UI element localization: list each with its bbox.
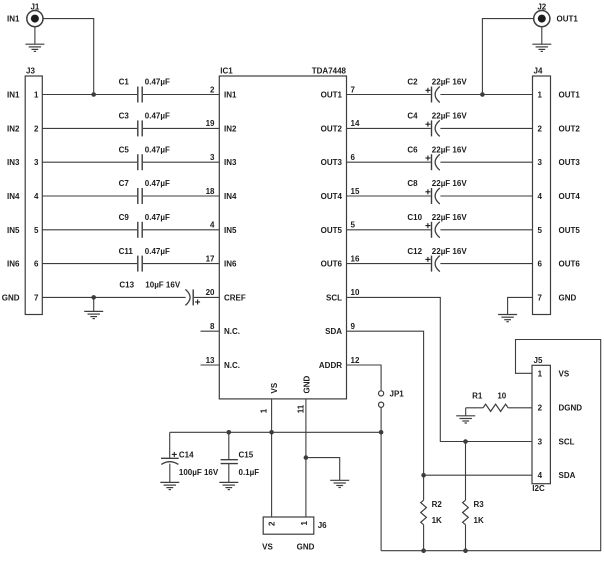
J3 pin 2 label xyxy=(7,124,39,133)
J3 pin 4 label xyxy=(7,192,39,201)
svg-text:C2: C2 xyxy=(407,78,418,87)
capacitor C3 0.47uF xyxy=(119,112,170,137)
svg-text:2: 2 xyxy=(267,521,276,526)
wire JP1 to VS rail xyxy=(380,407,382,432)
svg-text:11: 11 xyxy=(296,404,305,413)
svg-text:10: 10 xyxy=(351,288,360,297)
svg-text:IN4: IN4 xyxy=(7,192,20,201)
wire C4 to J4 pin 2 xyxy=(440,127,532,129)
svg-text:IN3: IN3 xyxy=(7,158,20,167)
capacitor C7 0.47uF xyxy=(119,179,170,204)
svg-text:0.47µF: 0.47µF xyxy=(145,213,170,222)
svg-text:15: 15 xyxy=(351,187,360,196)
svg-text:5: 5 xyxy=(34,226,39,235)
svg-text:GND: GND xyxy=(2,293,20,302)
junction node OUT1 xyxy=(480,92,485,97)
svg-text:R1: R1 xyxy=(472,391,483,400)
svg-text:1K: 1K xyxy=(474,516,484,525)
wire C2 to J4 pin 1 xyxy=(440,94,532,96)
J3 pin 3 label xyxy=(7,158,39,167)
svg-text:SCL: SCL xyxy=(326,293,342,302)
wire IC1 GND pin to J6 pin 1 xyxy=(305,399,307,517)
J4 pin 1 label xyxy=(537,91,580,100)
ground at R1 xyxy=(456,408,475,423)
J5 pin 2 label xyxy=(538,404,583,413)
resistor R2 1K xyxy=(421,500,443,525)
svg-text:17: 17 xyxy=(206,254,215,263)
svg-text:SDA: SDA xyxy=(559,471,576,480)
svg-text:C13: C13 xyxy=(119,281,134,290)
svg-text:16: 16 xyxy=(351,254,360,263)
J5 pin 4 label xyxy=(538,471,576,480)
svg-text:OUT4: OUT4 xyxy=(321,192,343,201)
svg-text:2: 2 xyxy=(538,404,543,413)
svg-text:3: 3 xyxy=(538,438,543,447)
svg-text:22µF 16V: 22µF 16V xyxy=(432,247,468,256)
svg-text:OUT6: OUT6 xyxy=(559,260,581,269)
svg-text:C10: C10 xyxy=(407,213,422,222)
svg-text:OUT6: OUT6 xyxy=(321,260,343,269)
svg-text:C9: C9 xyxy=(119,213,130,222)
svg-text:IN4: IN4 xyxy=(224,192,237,201)
svg-text:R3: R3 xyxy=(474,500,485,509)
svg-text:OUT4: OUT4 xyxy=(559,192,581,201)
J4 pin 5 label xyxy=(537,226,580,235)
svg-text:4: 4 xyxy=(210,221,215,230)
IC1 pin 8 N.C. xyxy=(201,322,241,336)
wire SCL to R3 xyxy=(465,442,467,501)
svg-text:OUT2: OUT2 xyxy=(321,124,343,133)
wire IC1 pin 5 to C10 xyxy=(347,229,431,231)
wire J5 pin 1 VS net xyxy=(381,340,601,551)
svg-text:2: 2 xyxy=(34,124,39,133)
wire SCL net xyxy=(347,297,533,441)
svg-text:OUT5: OUT5 xyxy=(559,226,581,235)
svg-text:1: 1 xyxy=(538,369,543,378)
wire ground to R1 xyxy=(466,407,483,409)
op IC1 TDA7448 box xyxy=(219,67,346,399)
J4 pin 2 label xyxy=(537,124,580,133)
junction C15 top xyxy=(227,430,232,435)
svg-text:CREF: CREF xyxy=(224,293,246,302)
svg-text:C5: C5 xyxy=(119,145,130,154)
wire C13 to IC1 pin 20 xyxy=(194,296,219,298)
svg-text:VS: VS xyxy=(270,382,279,393)
svg-text:DGND: DGND xyxy=(559,404,583,413)
svg-text:VS: VS xyxy=(559,369,570,378)
svg-text:1: 1 xyxy=(300,521,309,526)
svg-text:IN5: IN5 xyxy=(7,226,20,235)
wire IC1 VS pin to J6 pin 2 xyxy=(271,399,273,517)
J4 pin 3 label xyxy=(537,158,580,167)
capacitor C15 0.1uF xyxy=(221,432,260,482)
svg-text:J6: J6 xyxy=(318,521,327,530)
svg-text:1K: 1K xyxy=(432,516,442,525)
wire R1 to J5 pin 2 xyxy=(508,407,532,409)
svg-text:2: 2 xyxy=(537,124,542,133)
svg-text:N.C.: N.C. xyxy=(224,361,240,370)
svg-text:J4: J4 xyxy=(534,67,543,76)
svg-text:10: 10 xyxy=(497,391,506,400)
resistor R1 10 xyxy=(472,391,508,411)
svg-text:IN3: IN3 xyxy=(224,158,237,167)
junction VS pin xyxy=(269,430,274,435)
ground under J1 xyxy=(25,27,44,52)
svg-text:C14: C14 xyxy=(179,451,194,460)
svg-text:22µF 16V: 22µF 16V xyxy=(432,213,468,222)
svg-text:C4: C4 xyxy=(407,112,418,121)
svg-text:5: 5 xyxy=(537,226,542,235)
svg-text:22µF 16V: 22µF 16V xyxy=(432,78,468,87)
capacitor C12 22uF 16V xyxy=(407,247,467,272)
ground under J2 xyxy=(532,27,551,52)
capacitor C10 22uF 16V xyxy=(407,213,467,238)
wire ADDR to JP1 xyxy=(347,365,382,391)
wire C5 to IC1 pin 3 xyxy=(143,161,219,163)
svg-text:13: 13 xyxy=(206,356,215,365)
svg-text:C6: C6 xyxy=(407,145,418,154)
wire VS rail horizontal xyxy=(170,431,381,433)
svg-text:12: 12 xyxy=(351,356,360,365)
svg-text:C12: C12 xyxy=(407,247,422,256)
wire C10 to J4 pin 5 xyxy=(440,229,532,231)
svg-text:GND: GND xyxy=(559,293,577,302)
J3 pin 5 label xyxy=(7,226,39,235)
svg-text:IN2: IN2 xyxy=(7,124,20,133)
svg-text:VS: VS xyxy=(262,542,273,551)
junction SCL R3 xyxy=(463,439,468,444)
svg-text:19: 19 xyxy=(206,119,215,128)
connector J4 xyxy=(533,67,551,315)
svg-text:SDA: SDA xyxy=(325,327,342,336)
IC1 pin 13 N.C. xyxy=(201,356,241,370)
connector J1 xyxy=(27,2,43,26)
capacitor C8 22uF 16V xyxy=(407,179,467,204)
capacitor C5 0.47uF xyxy=(119,145,170,170)
svg-text:10µF 16V: 10µF 16V xyxy=(145,281,181,290)
wire C6 to J4 pin 3 xyxy=(440,161,532,163)
wire C12 to J4 pin 6 xyxy=(440,263,532,265)
capacitor C14 100uF 16V xyxy=(161,432,219,482)
svg-text:0.47µF: 0.47µF xyxy=(145,247,170,256)
svg-text:22µF 16V: 22µF 16V xyxy=(432,145,468,154)
wire C11 to IC1 pin 17 xyxy=(143,263,219,265)
svg-text:J5: J5 xyxy=(534,356,543,365)
wire C3 to IC1 pin 19 xyxy=(143,127,219,129)
wire J1 to IN1 node xyxy=(43,19,94,95)
J4 pin 4 label xyxy=(537,192,580,201)
capacitor C9 0.47uF xyxy=(119,213,170,238)
svg-text:1: 1 xyxy=(259,408,268,413)
wire C1 to IC1 pin 2 xyxy=(143,94,219,96)
svg-text:IN1: IN1 xyxy=(7,15,20,24)
wire J3 pin 6 to C11 xyxy=(42,263,137,265)
wire JP1 rail down to VS bottom net xyxy=(380,432,382,550)
svg-text:100µF 16V: 100µF 16V xyxy=(179,468,219,477)
wire C8 to J4 pin 4 xyxy=(440,195,532,197)
junction R2 bottom xyxy=(421,548,426,553)
svg-text:C1: C1 xyxy=(119,78,130,87)
svg-text:18: 18 xyxy=(206,187,215,196)
wire J3 pin 3 to C5 xyxy=(42,161,137,163)
wire IC1 pin 15 to C8 xyxy=(347,195,431,197)
jumper JP1 xyxy=(379,390,405,408)
wire R2 to VS bottom xyxy=(423,525,425,551)
svg-text:22µF 16V: 22µF 16V xyxy=(432,112,468,121)
junction node IN1 xyxy=(91,92,96,97)
capacitor C11 0.47uF xyxy=(119,247,170,272)
connector J3 xyxy=(25,67,42,315)
wire IC1 pin 6 to C6 xyxy=(347,161,431,163)
svg-text:GND: GND xyxy=(303,376,312,394)
svg-text:9: 9 xyxy=(351,322,356,331)
resistor R3 1K xyxy=(463,500,485,525)
J3 pin 6 label xyxy=(7,260,39,269)
svg-text:2: 2 xyxy=(210,85,215,94)
wire C9 to IC1 pin 4 xyxy=(143,229,219,231)
svg-text:OUT1: OUT1 xyxy=(321,91,343,100)
J5 pin 1 label xyxy=(538,369,570,378)
wire R3 to VS bottom xyxy=(465,525,467,551)
svg-text:0.47µF: 0.47µF xyxy=(145,145,170,154)
svg-text:GND: GND xyxy=(297,542,315,551)
svg-text:22µF 16V: 22µF 16V xyxy=(432,179,468,188)
svg-text:C8: C8 xyxy=(407,179,418,188)
svg-text:1: 1 xyxy=(537,91,542,100)
wire J3 pin 4 to C7 xyxy=(42,195,137,197)
wire GND branch to ground xyxy=(306,458,340,481)
svg-text:5: 5 xyxy=(351,221,356,230)
J3 pin 1 label xyxy=(7,91,39,100)
wire C7 to IC1 pin 18 xyxy=(143,195,219,197)
svg-text:IN6: IN6 xyxy=(224,260,237,269)
svg-text:20: 20 xyxy=(206,288,215,297)
svg-text:4: 4 xyxy=(537,192,542,201)
svg-text:JP1: JP1 xyxy=(390,390,405,399)
svg-text:0.1µF: 0.1µF xyxy=(239,468,260,477)
connector J6 xyxy=(263,517,327,534)
svg-text:IN6: IN6 xyxy=(7,260,20,269)
svg-text:OUT2: OUT2 xyxy=(559,124,581,133)
wire J3 pin 2 to C3 xyxy=(42,127,137,129)
svg-text:IN5: IN5 xyxy=(224,226,237,235)
svg-text:I2C: I2C xyxy=(532,484,545,493)
J5 pin 3 label xyxy=(538,438,575,447)
J4 pin 6 label xyxy=(537,260,580,269)
svg-text:7: 7 xyxy=(351,85,356,94)
ground under J4 xyxy=(498,315,517,322)
svg-text:7: 7 xyxy=(537,293,542,302)
capacitor C13 10uF 16V xyxy=(119,281,200,306)
J4 pin 7 label xyxy=(537,293,576,302)
svg-text:OUT1: OUT1 xyxy=(557,15,579,24)
svg-text:OUT3: OUT3 xyxy=(321,158,343,167)
svg-text:SCL: SCL xyxy=(559,438,575,447)
wire SDA net xyxy=(347,331,533,475)
junction SDA R2 xyxy=(421,473,426,478)
ground under GND row xyxy=(84,297,103,318)
wire J3 pin 7 to C13 xyxy=(42,296,185,298)
svg-text:C15: C15 xyxy=(239,451,254,460)
svg-text:0.47µF: 0.47µF xyxy=(145,78,170,87)
wire IC1 pin 7 to C2 xyxy=(347,94,431,96)
wire IC1 pin 14 to C4 xyxy=(347,127,431,129)
junction JP1 bottom xyxy=(379,430,384,435)
svg-text:4: 4 xyxy=(34,192,39,201)
svg-text:R2: R2 xyxy=(432,500,443,509)
svg-text:OUT1: OUT1 xyxy=(559,91,581,100)
svg-text:C7: C7 xyxy=(119,179,130,188)
svg-text:IC1: IC1 xyxy=(220,67,233,76)
junction R3 bottom xyxy=(463,548,468,553)
capacitor C2 22uF 16V xyxy=(407,78,467,103)
capacitor C1 0.47uF xyxy=(119,78,170,103)
ground under C15 xyxy=(219,482,238,489)
svg-text:OUT5: OUT5 xyxy=(321,226,343,235)
svg-text:TDA7448: TDA7448 xyxy=(312,67,347,76)
connector J2 xyxy=(534,2,550,26)
svg-text:6: 6 xyxy=(537,260,542,269)
svg-text:ADDR: ADDR xyxy=(319,361,342,370)
wire J3 pin 1 to C1 xyxy=(42,94,137,96)
ground mid xyxy=(330,480,349,487)
svg-text:IN1: IN1 xyxy=(224,91,237,100)
capacitor C4 22uF 16V xyxy=(407,112,467,137)
svg-text:7: 7 xyxy=(34,293,39,302)
svg-text:4: 4 xyxy=(538,471,543,480)
svg-text:C11: C11 xyxy=(119,247,134,256)
svg-text:1: 1 xyxy=(34,91,39,100)
svg-text:6: 6 xyxy=(34,260,39,269)
junction GND branch xyxy=(304,455,309,460)
wire IC1 pin 16 to C12 xyxy=(347,263,431,265)
ground under C14 xyxy=(160,482,179,489)
svg-text:IN1: IN1 xyxy=(7,91,20,100)
svg-text:OUT3: OUT3 xyxy=(559,158,581,167)
J3 pin 7 label xyxy=(2,293,39,302)
wire J3 pin 5 to C9 xyxy=(42,229,137,231)
wire J2 to OUT1 node xyxy=(482,19,533,95)
wire SDA to R2 xyxy=(423,475,425,500)
svg-text:C3: C3 xyxy=(119,112,130,121)
svg-text:8: 8 xyxy=(210,322,215,331)
svg-text:0.47µF: 0.47µF xyxy=(145,112,170,121)
svg-text:3: 3 xyxy=(210,153,215,162)
junction GND row xyxy=(91,295,96,300)
svg-text:3: 3 xyxy=(34,158,39,167)
connector J5 xyxy=(532,356,550,493)
wire J4 pin 7 to ground xyxy=(508,297,533,314)
svg-text:6: 6 xyxy=(351,153,356,162)
svg-text:J3: J3 xyxy=(26,67,35,76)
capacitor C6 22uF 16V xyxy=(407,145,467,170)
svg-text:N.C.: N.C. xyxy=(224,327,240,336)
svg-text:IN2: IN2 xyxy=(224,124,237,133)
svg-text:3: 3 xyxy=(537,158,542,167)
svg-text:0.47µF: 0.47µF xyxy=(145,179,170,188)
svg-text:14: 14 xyxy=(351,119,360,128)
